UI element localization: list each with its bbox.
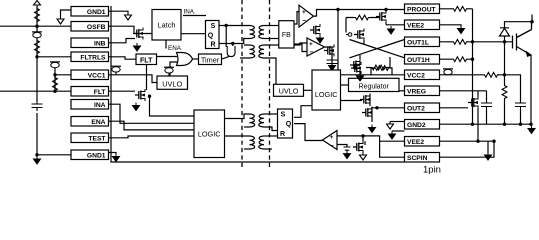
block Latch [152, 10, 181, 41]
wire GND2 internal stub [390, 121, 405, 123]
junction diode/gate line [503, 40, 506, 43]
wire PROOUT external [440, 8, 473, 10]
svg-text:VEE2: VEE2 [407, 22, 424, 29]
wire gate bus [472, 9, 474, 124]
svg-text:OUT1L: OUT1L [407, 39, 429, 46]
comparator U3 (short circuit) [323, 131, 338, 150]
transformer T3 secondary coil [259, 114, 264, 127]
resistor R2 (FLTRLS) [35, 39, 40, 55]
fet nmos driver [350, 59, 360, 71]
junction top rail B [384, 8, 387, 11]
svg-text:OSFB: OSFB [87, 24, 106, 31]
wire FB to comp1 [294, 12, 299, 24]
svg-text:Q: Q [208, 32, 214, 39]
svg-text:TEST: TEST [88, 135, 106, 142]
transformer T2 primary coil [250, 45, 255, 58]
junction OSFB/rail [35, 25, 38, 28]
polarized sym VCC2 ext [443, 69, 453, 75]
junction fet source VEE2 [476, 140, 479, 143]
wire INA label stub [183, 15, 206, 17]
pin OUT2 [405, 103, 440, 113]
wire VEE arrow stub [487, 141, 489, 153]
diode D1 [500, 28, 510, 36]
wire regulator sense [341, 84, 349, 86]
pin SCPIN [405, 153, 440, 163]
svg-text:OUT1H: OUT1H [407, 57, 430, 64]
polarized sym on VCC1 line [111, 66, 121, 72]
vee arrow under comp1 fet [317, 35, 324, 43]
svg-text:FLT: FLT [94, 89, 107, 96]
svg-text:VEE2: VEE2 [407, 139, 424, 146]
wire cap2 branch [505, 75, 521, 124]
svg-text:GND2: GND2 [407, 122, 426, 129]
wire LOGIC out2 to T4 [225, 135, 250, 137]
fet pmos2 driver [354, 29, 364, 41]
svg-text:ENA: ENA [91, 119, 105, 126]
open arrow under comp3 fet [360, 153, 367, 161]
wire cap1 stubs [486, 91, 488, 124]
wire INB internal [109, 39, 136, 43]
wire gate resistor comp1 [346, 18, 379, 33]
arrow of cap-gnd [329, 63, 336, 71]
junction emitter/GND2 [529, 123, 532, 126]
wire left rail x37 [37, 7, 71, 155]
open arrow GND2 int [387, 122, 394, 130]
vee arrow VEE2b ext [485, 152, 492, 160]
wire VCC1 internal [109, 75, 158, 83]
svg-text:−: − [302, 18, 306, 25]
svg-text:−: − [309, 49, 313, 56]
wire gate to timer [193, 58, 199, 60]
junction OUT1L bus [471, 40, 474, 43]
svg-text:INA: INA [94, 102, 106, 109]
wire GND2 external rail [440, 123, 532, 125]
resistor nmos [371, 65, 387, 70]
wire OUT2 driver rail [370, 94, 372, 123]
wire OSFB to latch [109, 26, 153, 33]
svg-text:−: − [330, 143, 334, 150]
fet above regulator [351, 62, 361, 74]
wire UVLO2 to LOGIC2 [304, 89, 313, 91]
block FLT [136, 54, 157, 65]
wire FB to comp2 minus [294, 44, 307, 52]
svg-text:VCC2: VCC2 [407, 72, 425, 79]
svg-text:GND1: GND1 [87, 9, 106, 16]
wire ENA to LOGIC [109, 121, 195, 130]
junction SCPIN VEE2 [492, 140, 495, 143]
pin FLTRLS [71, 52, 109, 62]
wire VEE2 marker stub [392, 130, 405, 132]
svg-text:Regulator: Regulator [359, 83, 390, 90]
wire LOGIC out1 to T3 [225, 114, 250, 119]
wire comp1 output [314, 10, 405, 17]
reference ground comp3 [344, 147, 351, 150]
wire pmos1 drain to VEE2 [386, 23, 405, 25]
resistor above regulator [374, 66, 390, 71]
fet comp3 side [353, 141, 363, 153]
junction cap2/GND2 [519, 123, 522, 126]
svg-text:+: + [330, 134, 334, 141]
wire comp3 minus to ref [337, 145, 347, 148]
wire T2 secondary to comp2 [264, 43, 307, 45]
transformer T4 primary coil [250, 136, 255, 149]
junction FLT fet [148, 95, 151, 98]
svg-text:VCC1: VCC1 [88, 72, 106, 79]
resistor VCC2 ext [483, 72, 499, 77]
wire VCC1 rail x55 [55, 67, 71, 92]
wire T1 secondary to FB [264, 25, 279, 27]
wire OUT1H external [440, 58, 473, 60]
wire TEST to LOGIC [109, 136, 195, 138]
wire T2 secondary bottom to UVLO [264, 58, 276, 84]
wire GND1 internal [109, 11, 129, 12]
junction GND1 bottom [35, 153, 38, 156]
wire resistor branch [504, 75, 506, 124]
ground arrow GND1 bottom internal [113, 154, 120, 162]
ground arrow GND2 ext [528, 126, 535, 134]
svg-text:+: + [302, 9, 306, 16]
junction FLT/rail [53, 90, 56, 93]
wire diode branch [505, 15, 533, 42]
block Regulator [349, 78, 400, 91]
wire T2 primary stubs [240, 45, 250, 58]
pin GND1 (top) [71, 7, 109, 17]
wire FLT gate drive [146, 65, 148, 91]
svg-text:INB: INB [94, 40, 106, 47]
wire T3 secondary bottom to SR [264, 127, 279, 131]
wire SR2 Q to LOGIC2 [294, 106, 312, 118]
junction bus GND2 [471, 123, 474, 126]
junction R line [231, 42, 234, 45]
wire ext fet source [477, 109, 479, 142]
svg-text:+: + [309, 41, 313, 48]
transformer T4 secondary coil [259, 136, 264, 149]
wire ENA overline stub [165, 40, 167, 49]
pulse shaper cup [227, 46, 235, 57]
fet external OUT2 [468, 97, 478, 109]
svg-text:S: S [281, 112, 286, 119]
wire VREG to regulator [399, 90, 405, 92]
wire nmos lower stubs [360, 55, 390, 74]
wire R output to T1 [219, 39, 250, 44]
wire T3 primary return [244, 126, 250, 128]
wire T4 primary return [244, 148, 250, 150]
resistor comp1 gate [354, 15, 370, 20]
junction VCC2/diode [503, 73, 506, 76]
left pin boxes [71, 7, 109, 160]
wire pmos2 gate stub [346, 34, 348, 36]
wire comp3 plus input / SCPIN net [337, 136, 405, 157]
junction res/GND2 [503, 123, 506, 126]
vee arrow VEE2b int [389, 131, 396, 139]
svg-text:R: R [210, 42, 215, 49]
capacitor C2 ext [515, 99, 526, 110]
junction comp3 fet drain [361, 134, 364, 137]
svg-text:1pin: 1pin [423, 165, 441, 175]
block UVLO primary [157, 76, 188, 89]
svg-text:UVLO: UVLO [279, 86, 299, 95]
block FB [279, 21, 294, 48]
wire UVLO to gate [170, 62, 177, 76]
pin VREG [405, 86, 440, 96]
right pin boxes [405, 4, 440, 162]
junction collector rail [530, 20, 533, 23]
svg-text:INA.: INA. [184, 9, 196, 16]
fet under comp2 [324, 45, 334, 57]
svg-text:OUT2: OUT2 [407, 105, 425, 112]
pin OSFB [71, 22, 109, 32]
ground arrow bottom-left [34, 156, 41, 164]
wire FLT external line [0, 90, 71, 92]
pin VCC1 [71, 70, 109, 80]
svg-text:Q: Q [286, 121, 292, 128]
junction VCC1/rail [53, 73, 56, 76]
svg-text:PROOUT: PROOUT [407, 6, 437, 13]
fet OUT2 high [360, 94, 370, 106]
wire regulator top fet stub [359, 61, 361, 78]
wire comp3 output to SR2 [294, 124, 323, 141]
polarized sym above UVLO [164, 67, 174, 73]
polarized sym on rail [32, 32, 42, 38]
pin PROOUT [405, 4, 440, 14]
svg-text:Timer: Timer [201, 55, 220, 64]
vee arrow nmos [357, 73, 364, 81]
resistor ext pulldown [502, 84, 507, 100]
wire GND1 hook to OSFB [61, 10, 72, 17]
wire OSFB external line [0, 25, 71, 27]
block SR flip-flop 1 [206, 21, 220, 49]
comparator U1 [299, 5, 314, 27]
svg-text:FB: FB [282, 32, 291, 39]
polarized sym on VCC1 rail [50, 62, 60, 68]
junction FLTRLS/rail [35, 55, 38, 58]
svg-text:LOGIC: LOGIC [315, 90, 338, 99]
wire comp1 to LOGIC top [337, 10, 339, 71]
wire X cross OUT1 [350, 40, 405, 58]
block LOGIC primary [194, 110, 225, 158]
resistor R3 (FLT pullup) [53, 76, 58, 92]
fet pmos1 top driver [376, 11, 386, 23]
fet Q1 (OSFB input) [133, 28, 143, 40]
wire FLTRLS to FLT block [109, 57, 137, 59]
pin FLT [71, 87, 109, 97]
fet Q2 (FLT pulldown) [135, 89, 145, 101]
pin OUT1H [405, 55, 440, 65]
wire SCPIN external [440, 141, 495, 157]
junction S line [225, 24, 228, 27]
block Timer [199, 54, 222, 65]
pin INB [71, 38, 109, 48]
wire T4 secondary to R [264, 135, 279, 137]
pin OUT1L [405, 37, 440, 47]
wire OUT2 external [440, 107, 469, 109]
transformer T2 secondary coil [259, 45, 264, 58]
svg-text:FLT: FLT [140, 57, 153, 64]
wire FLT to gate [157, 56, 178, 58]
wire IGBT emitter down [530, 55, 532, 124]
pin VCC2 [405, 70, 440, 80]
resistor OUT1L [452, 39, 468, 44]
wire LOGIC2 to OUT2 driver gates [341, 100, 363, 102]
wire T4 secondary return [264, 148, 272, 150]
pin VEE2 top [405, 20, 440, 30]
vee arrow VEE2a [388, 26, 395, 34]
block LOGIC secondary [312, 70, 341, 110]
wire OUT1L external [440, 41, 473, 43]
isolation barrier dashed lines [242, 0, 270, 170]
pin ENA [71, 117, 109, 127]
pin INA [71, 100, 109, 110]
wire pmos2 drain down [363, 41, 365, 45]
internal gnd open arrow (GND1 top) [125, 13, 132, 21]
pin VEE2 bottom [405, 137, 440, 147]
svg-text:Latch: Latch [158, 21, 176, 30]
wire VCC2 external [440, 74, 505, 76]
open arrow from GND1 to OSFB line [57, 17, 64, 25]
wire OUT2 line [371, 107, 405, 109]
pin TEST [71, 133, 109, 143]
wire timer to pulse shaper [222, 56, 230, 58]
svg-text:S: S [211, 23, 216, 30]
pin GND2 [405, 120, 440, 130]
cap-gnd above LOGIC2 [327, 56, 338, 67]
wire PROOUT top rail branch [385, 10, 387, 12]
junction OUT2 [375, 106, 378, 109]
wire VEE2 internal stub [380, 140, 405, 142]
wire shaper to R line [232, 44, 234, 47]
supply up-arrow left rail [34, 1, 41, 8]
wire VEE2b external [440, 140, 495, 142]
ground arrow under Q2 [133, 103, 140, 111]
junction OUT1H bus [471, 58, 474, 61]
junction top rail A [336, 8, 339, 11]
pin GND1 (bottom) [71, 150, 109, 160]
wire INA to LOGIC [109, 104, 195, 123]
resistor PROOUT [452, 6, 468, 11]
wire GND1 bottom internal [109, 153, 117, 154]
svg-text:SCPIN: SCPIN [407, 155, 428, 162]
IGBT Q10 [513, 22, 532, 57]
block SR flip-flop 2 [278, 109, 293, 138]
wire S output to T1 [219, 25, 250, 27]
wire comp3 fet drain [362, 136, 364, 141]
vee arrow VEE2a ext [458, 26, 465, 34]
svg-text:UVLO: UVLO [162, 79, 182, 88]
wire VCC2 internal rail [341, 74, 405, 76]
fet OUT2 low [362, 107, 372, 119]
resistor OUT1H [452, 57, 468, 62]
svg-text:VREG: VREG [407, 88, 426, 95]
transformer T1 primary coil [250, 26, 255, 39]
wire VEE2a external [440, 25, 462, 27]
wire latch output to Q [181, 33, 206, 35]
bubble pmos2 gate [348, 33, 352, 37]
svg-text:R: R [280, 131, 285, 138]
wire comp2 output to LOGIC [325, 47, 333, 70]
svg-text:LOGIC: LOGIC [198, 130, 221, 139]
comparator U2 [307, 38, 325, 56]
transformer T1 secondary coil [259, 26, 264, 39]
svg-text:GND1: GND1 [87, 152, 106, 159]
IC primary-side boundary [111, 6, 405, 162]
svg-text:FLTRLS: FLTRLS [80, 54, 106, 61]
capacitor C1 [32, 100, 43, 111]
wire FLTRLS stub [37, 56, 71, 58]
resistor R1 (OSFB pullup) [35, 7, 40, 23]
wire diode to VCC2 [504, 42, 506, 75]
wire T3 secondary to S [264, 113, 279, 115]
wire FLT pin internal [109, 90, 136, 92]
svg-text:ENA: ENA [168, 45, 182, 52]
capacitor C1 ext VREG [481, 99, 492, 110]
ground arrow under Q1 [134, 43, 141, 51]
wire T1 secondary bottom to FB [264, 38, 279, 40]
fet under comp1 [310, 24, 320, 36]
wire VREG external [440, 90, 487, 92]
gate G1 [177, 53, 193, 66]
wire gate to IGBT [473, 41, 513, 43]
wire S branch to shaper [225, 26, 227, 48]
transformer T3 primary coil [250, 114, 255, 127]
wire comp3 fet stub [364, 141, 366, 145]
ground arrow OUT2 [369, 125, 376, 133]
block UVLO secondary [274, 84, 304, 96]
wire ext fet drain [477, 91, 479, 97]
wire FLT fet to LOGIC [150, 96, 195, 116]
wire reg resistor stub [371, 68, 392, 75]
